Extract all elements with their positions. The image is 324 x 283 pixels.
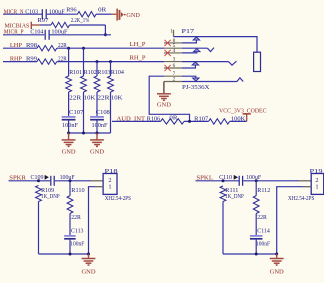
wire R102 top xyxy=(83,48,85,76)
resistor R110 xyxy=(67,196,73,214)
resistor R106 xyxy=(161,119,184,124)
svg-text:LH_P: LH_P xyxy=(130,41,146,48)
wire R111 to rail xyxy=(222,202,224,255)
junction rail P18 xyxy=(87,253,90,256)
junction LHP-R102 xyxy=(82,47,85,50)
pin 5 xyxy=(164,47,182,49)
svg-text:C108: C108 xyxy=(96,109,110,116)
junction rail R103 xyxy=(96,132,99,135)
wire GND port stub xyxy=(112,13,117,15)
svg-text:1K_DNP: 1K_DNP xyxy=(225,193,244,200)
power port VCC stub xyxy=(246,114,248,122)
pin 4 xyxy=(164,52,182,54)
junction SPKL-R112 xyxy=(255,179,258,182)
capacitor C114 xyxy=(250,236,263,239)
junction R97-MICR_P xyxy=(104,33,107,36)
plug body rectangle xyxy=(254,52,261,71)
pin 1 xyxy=(173,30,175,37)
svg-text:3: 3 xyxy=(173,57,176,63)
wire GND stub right xyxy=(276,254,278,258)
wire P19 pin1 to rail xyxy=(277,187,303,254)
resistor R103 xyxy=(94,76,100,92)
ground A xyxy=(62,140,76,147)
wire C109 to P18 xyxy=(55,180,91,182)
capacitor C110 polarity xyxy=(234,175,238,180)
wire GND stub left xyxy=(88,254,90,258)
junction rail P19 xyxy=(275,253,278,256)
resistor R98 xyxy=(37,46,57,51)
junction rail R101 xyxy=(67,132,70,135)
wire RHP xyxy=(3,61,37,63)
resistor R112 xyxy=(253,196,259,214)
svg-text:XH2.54-2PS: XH2.54-2PS xyxy=(105,196,131,202)
resistor R102 xyxy=(81,76,87,92)
wire P18 pin1 to rail xyxy=(89,187,96,254)
wire R97 drop xyxy=(104,25,106,35)
wire R112 top xyxy=(255,181,257,196)
pin 3 xyxy=(164,61,182,63)
wire MICR_P right xyxy=(49,34,111,36)
pin 1 stub P18 xyxy=(95,186,103,188)
wire R110 top xyxy=(69,181,71,196)
resistor R109 xyxy=(36,186,42,202)
svg-text:VCC_3V3_CODEC: VCC_3V3_CODEC xyxy=(219,108,267,115)
wire R110 to C113 xyxy=(69,214,71,236)
no-connect pin 4 xyxy=(165,50,171,56)
ground jack xyxy=(157,94,171,101)
wire C107 to rail xyxy=(68,121,70,134)
contact bend pin 2 xyxy=(237,78,243,82)
svg-text:PJ-3536X: PJ-3536X xyxy=(182,85,210,91)
wire R112 to C114 xyxy=(255,214,257,236)
wire R104 top xyxy=(110,62,112,76)
svg-text:0R: 0R xyxy=(98,6,107,13)
power port VCC bar xyxy=(243,113,251,115)
resistor R96 xyxy=(78,12,97,17)
wire R101 to C107 xyxy=(68,92,70,116)
svg-text:100nF: 100nF xyxy=(92,122,109,129)
svg-text:C104: C104 xyxy=(30,29,44,36)
svg-text:C103: C103 xyxy=(25,8,38,15)
wire RHP to jack xyxy=(57,61,164,63)
svg-text:R104: R104 xyxy=(111,69,124,76)
wire R96 to GND port xyxy=(96,13,112,15)
ground B xyxy=(90,140,104,147)
svg-text:10K: 10K xyxy=(111,95,123,102)
wire GND stub B xyxy=(96,133,98,140)
wire pin 3 contact xyxy=(182,61,229,63)
svg-text:R98: R98 xyxy=(26,42,37,49)
wire C114 to rail xyxy=(255,240,257,254)
wire GND stub A xyxy=(68,133,70,140)
junction RHP-R103 xyxy=(96,60,99,63)
capacitor C103 xyxy=(42,9,46,19)
svg-text:C110: C110 xyxy=(219,174,232,181)
capacitor C104 xyxy=(45,30,49,40)
power port MICBIAS bar xyxy=(31,22,32,29)
no-connect pin 6 xyxy=(165,65,171,71)
wire R97 to node xyxy=(70,24,106,26)
power port GND top xyxy=(116,9,125,21)
resistor R104 xyxy=(108,76,114,92)
wire pin 5 contact xyxy=(182,47,208,49)
wire R103 to C108 xyxy=(96,92,98,116)
svg-text:GND: GND xyxy=(270,269,285,276)
ground rail left xyxy=(39,253,89,255)
svg-text:GND: GND xyxy=(82,269,97,276)
junction SPKR-R109 xyxy=(37,179,40,182)
svg-text:22R: 22R xyxy=(97,95,110,102)
wire sleeve to plug xyxy=(174,37,258,53)
connector P18 body xyxy=(103,174,117,195)
svg-text:P17: P17 xyxy=(182,28,196,35)
pin 2 stub P19 xyxy=(299,180,311,182)
wire MICBIAS to R97 xyxy=(40,24,51,26)
wire MICR_N xyxy=(3,13,42,15)
junction SPKL-R111 xyxy=(222,179,225,182)
wire pin 7 to AUD_INT node xyxy=(149,76,189,121)
capacitor C109 polarity xyxy=(45,175,49,180)
svg-text:100uF: 100uF xyxy=(246,174,261,181)
wire C113 to rail xyxy=(69,240,71,254)
svg-text:22R: 22R xyxy=(69,95,82,102)
svg-text:RH_P: RH_P xyxy=(130,55,146,62)
wire SPKR xyxy=(9,180,51,182)
wire LHP xyxy=(3,47,37,49)
svg-text:R96: R96 xyxy=(66,6,76,13)
svg-text:C107: C107 xyxy=(69,109,84,116)
svg-text:R112: R112 xyxy=(257,187,270,194)
resistor R107 xyxy=(209,119,230,124)
ground left block xyxy=(82,259,96,266)
wire AUD_INT xyxy=(112,120,161,122)
switch contact pin 7 xyxy=(193,78,200,81)
svg-text:10K: 10K xyxy=(84,95,96,102)
no-connect pin 8 xyxy=(165,40,171,46)
svg-text:R99: R99 xyxy=(26,56,37,63)
contact bend pin 5 xyxy=(208,48,215,52)
wire R107 to VCC xyxy=(230,120,247,122)
svg-text:4: 4 xyxy=(173,48,176,54)
svg-text:GND: GND xyxy=(126,12,140,19)
pin 7 xyxy=(164,75,182,77)
svg-text:GND: GND xyxy=(90,148,105,155)
wire R103 top xyxy=(96,62,98,76)
svg-text:1K_DNP: 1K_DNP xyxy=(41,193,60,200)
junction SPKR-R110 xyxy=(69,179,72,182)
resistor R101 xyxy=(66,76,72,92)
wire pin 2 to ground xyxy=(163,82,165,94)
svg-text:100nF: 100nF xyxy=(256,241,270,248)
ground rail right xyxy=(223,253,277,255)
junction RHP-R104 xyxy=(109,60,112,63)
svg-text:6: 6 xyxy=(173,63,176,69)
ground rail mid xyxy=(69,132,111,134)
svg-text:22R: 22R xyxy=(71,214,81,221)
connector P19 body xyxy=(311,174,324,195)
svg-text:2: 2 xyxy=(173,77,176,83)
pin 2 stub P18 xyxy=(91,180,103,182)
svg-text:C109: C109 xyxy=(31,174,44,181)
ground right block xyxy=(270,259,284,266)
switch contact pin 8 xyxy=(193,37,200,40)
svg-text:P19: P19 xyxy=(310,168,323,175)
wire R109 to rail xyxy=(38,202,40,255)
svg-text:R103: R103 xyxy=(97,69,110,76)
capacitor C113 xyxy=(64,236,76,239)
svg-text:R106: R106 xyxy=(147,115,161,122)
wire R104 to rail xyxy=(110,92,112,133)
svg-text:2.2K_1%: 2.2K_1% xyxy=(71,17,90,24)
svg-text:1: 1 xyxy=(108,184,111,191)
svg-text:C114: C114 xyxy=(257,228,270,235)
svg-text:GND: GND xyxy=(157,102,172,109)
resistor R99 xyxy=(37,59,57,64)
svg-text:GND: GND xyxy=(62,148,77,155)
wire MICR_P xyxy=(3,34,44,36)
svg-text:C113: C113 xyxy=(71,228,84,235)
junction AUD node xyxy=(188,120,191,123)
resistor R111 xyxy=(220,186,226,202)
pin 6 xyxy=(164,67,182,69)
svg-text:R102: R102 xyxy=(84,69,97,76)
pin 8 xyxy=(164,42,182,44)
wire pin 2 contact xyxy=(182,81,237,83)
svg-text:1: 1 xyxy=(170,28,173,34)
svg-text:1: 1 xyxy=(315,184,318,191)
wire C103 to R96 xyxy=(47,13,78,15)
capacitor C110 xyxy=(239,176,242,186)
pin 2 xyxy=(164,81,182,83)
svg-text:100nF: 100nF xyxy=(62,122,79,129)
svg-text:R107: R107 xyxy=(194,115,209,122)
resistor R97 xyxy=(51,22,70,27)
svg-text:100uF: 100uF xyxy=(60,174,75,181)
svg-text:0R: 0R xyxy=(169,114,178,121)
wire SPKL xyxy=(196,180,239,182)
svg-text:100nF: 100nF xyxy=(70,241,84,248)
capacitor C109 xyxy=(51,176,54,186)
svg-text:P18: P18 xyxy=(105,168,118,175)
svg-text:R97: R97 xyxy=(37,17,49,24)
wire R101 top xyxy=(68,48,70,76)
wire C110 to P19 xyxy=(243,180,299,182)
wire R106 to node xyxy=(184,120,209,122)
capacitor C108 xyxy=(90,117,104,120)
pin 1 stub P19 xyxy=(303,186,311,188)
capacitor C107 xyxy=(62,117,76,120)
switch contact pin 4 xyxy=(194,49,201,52)
svg-text:XH2.54-2PS: XH2.54-2PS xyxy=(288,196,314,202)
junction rail R102 xyxy=(82,132,85,135)
wire LHP to jack xyxy=(57,47,164,49)
junction rail C114 xyxy=(255,253,258,256)
svg-text:R110: R110 xyxy=(71,187,84,194)
wire MICBIAS red stub xyxy=(32,24,40,26)
wire R102 to rail xyxy=(83,92,85,133)
switch contact pin 6 xyxy=(192,62,199,65)
junction LHP-R101 xyxy=(67,47,70,50)
contact bend pin 3 xyxy=(229,61,237,65)
svg-text:22R: 22R xyxy=(257,214,267,221)
junction rail C113 xyxy=(69,253,72,256)
svg-text:R101: R101 xyxy=(69,69,82,76)
wire C108 to rail xyxy=(96,121,98,134)
